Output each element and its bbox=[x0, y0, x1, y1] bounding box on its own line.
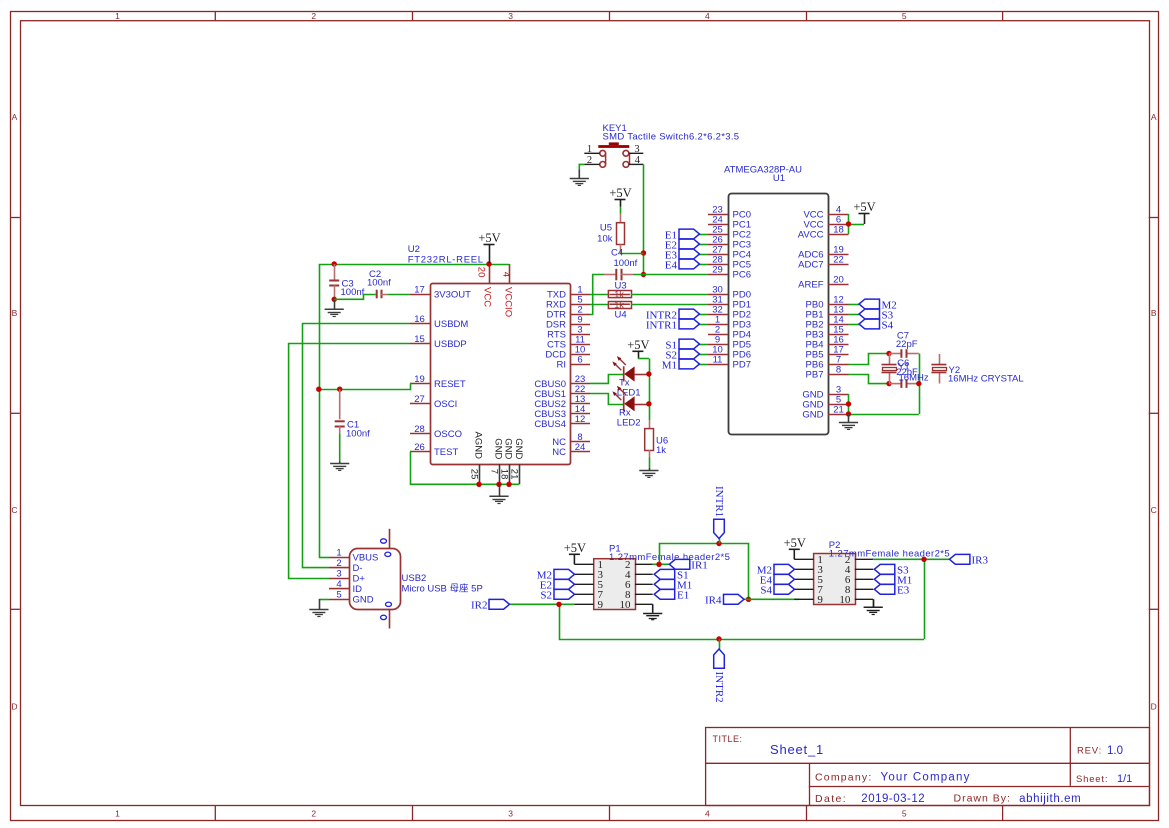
U1 pin 28 PC5 bbox=[708, 254, 751, 270]
U1 pin 24 PC1 bbox=[708, 214, 751, 230]
title block bbox=[706, 727, 1150, 805]
svg-text:22pF: 22pF bbox=[896, 339, 918, 350]
svg-text:D-: D- bbox=[353, 563, 363, 574]
net flag S4 at P2 bbox=[760, 584, 794, 596]
svg-text:D: D bbox=[1151, 702, 1157, 712]
svg-text:TEST: TEST bbox=[434, 447, 458, 458]
net flag IR1 bbox=[669, 559, 708, 571]
junction U2 GND7 bbox=[496, 482, 501, 487]
svg-text:Your Company: Your Company bbox=[881, 772, 971, 784]
wire KEY1 pin4 down bbox=[643, 164, 645, 274]
svg-text:Y1: Y1 bbox=[898, 362, 910, 373]
ground under C3 bbox=[325, 299, 344, 316]
U1 pin 9 PD5 bbox=[708, 334, 751, 350]
U1 pin 32 PD2 bbox=[708, 304, 751, 320]
ground at U1 bbox=[839, 414, 858, 429]
wire IR4 to P2 pin9 bbox=[749, 598, 799, 600]
U2 pin 21 GND bottom bbox=[509, 438, 524, 484]
wire CBUS1 to LED2 bbox=[590, 394, 623, 405]
U2 pin 27 OSCI bbox=[410, 394, 457, 410]
ground under U6 bbox=[639, 468, 658, 477]
net flag M2 at U1 right bbox=[849, 299, 897, 311]
capacitor C3 100nf bbox=[329, 264, 364, 299]
P2 pin 4 bbox=[845, 564, 873, 576]
svg-text:PD7: PD7 bbox=[733, 360, 751, 371]
svg-text:Date:: Date: bbox=[815, 793, 847, 805]
U1 pin 21 GND bbox=[802, 404, 848, 420]
net flag M1 at P1 right bbox=[654, 579, 692, 591]
junction IR3 bbox=[921, 557, 926, 562]
net flag IR4 bbox=[705, 594, 749, 606]
wire U2 TEST to GND rail bbox=[410, 452, 519, 485]
net flag E4 at P2 bbox=[760, 574, 795, 586]
svg-text:S4: S4 bbox=[760, 585, 772, 597]
wire RXD to U4 bbox=[590, 304, 608, 306]
U2 pin 22 CBUS1 bbox=[534, 384, 590, 400]
node A junction bbox=[886, 351, 891, 356]
U1 pin 1 PD3 bbox=[708, 314, 751, 330]
net flag S3 at U1 right bbox=[849, 309, 894, 321]
svg-text:5: 5 bbox=[902, 11, 907, 21]
svg-text:9: 9 bbox=[598, 599, 604, 611]
power flag +5V at P2 bbox=[784, 536, 806, 559]
wire TXD to U3 bbox=[590, 294, 608, 296]
svg-text:100nf: 100nf bbox=[346, 429, 370, 440]
svg-text:16MHz: 16MHz bbox=[899, 372, 929, 383]
U2 pin 16 USBDM bbox=[410, 314, 468, 330]
wire P2 pin2 to IR3 bbox=[873, 559, 949, 639]
P1 pin 5 bbox=[574, 579, 603, 591]
U2 pin 2 DTR bbox=[546, 304, 590, 320]
svg-text:Micro USB 母座 5P: Micro USB 母座 5P bbox=[402, 583, 483, 595]
wire PB6 to crystal node A bbox=[849, 354, 890, 365]
svg-text:SMD Tactile Switch6.2*6.2*3.5: SMD Tactile Switch6.2*6.2*3.5 bbox=[603, 132, 740, 143]
svg-text:1: 1 bbox=[115, 808, 120, 818]
net flag S2 at U1 left bbox=[665, 349, 708, 361]
P2 pin 9 bbox=[794, 594, 823, 606]
svg-text:D+: D+ bbox=[353, 574, 366, 585]
net flag E2 at P1 bbox=[540, 579, 575, 591]
P2 pin 8 bbox=[845, 584, 873, 596]
USB2 mount pin bottom bbox=[381, 602, 392, 628]
svg-text:+5V: +5V bbox=[853, 200, 875, 214]
U1 pin 6 VCC bbox=[803, 214, 848, 230]
P1 pin 2 bbox=[625, 559, 653, 571]
svg-text:LED2: LED2 bbox=[617, 418, 641, 429]
U2 pin 15 USBDP bbox=[410, 334, 467, 350]
svg-text:C4: C4 bbox=[611, 248, 623, 259]
junction U1 VCC bbox=[846, 221, 851, 226]
wire CBUS0 to LED1 bbox=[590, 375, 623, 384]
svg-text:100nf: 100nf bbox=[367, 278, 391, 289]
svg-text:1/1: 1/1 bbox=[1117, 773, 1132, 785]
svg-text:24: 24 bbox=[575, 442, 586, 453]
op-amp U1 ATMEGA328P-AU body bbox=[724, 165, 828, 435]
svg-text:S4: S4 bbox=[882, 319, 894, 331]
svg-text:INTR2: INTR2 bbox=[713, 672, 725, 703]
U1 pin 31 PD1 bbox=[708, 294, 751, 310]
svg-text:4: 4 bbox=[336, 579, 341, 590]
U1 pin 22 ADC7 bbox=[798, 254, 848, 270]
svg-text:1: 1 bbox=[336, 548, 341, 559]
svg-text:9: 9 bbox=[817, 594, 823, 606]
svg-text:USBDM: USBDM bbox=[434, 319, 468, 330]
P1 pin 9 bbox=[574, 599, 603, 611]
USB2 mount pin top bbox=[381, 529, 391, 557]
U1 pin 10 PD6 bbox=[708, 344, 751, 360]
net flag E1 at P1 right bbox=[654, 589, 689, 601]
wire USB2 GND bbox=[319, 599, 329, 601]
svg-text:IR3: IR3 bbox=[972, 555, 989, 567]
wire C7 right to rail bbox=[889, 354, 920, 415]
wire DTR to C4 bbox=[590, 275, 604, 315]
ground at P2 pin10 bbox=[873, 599, 875, 606]
svg-text:4: 4 bbox=[705, 808, 710, 818]
svg-text:5: 5 bbox=[902, 808, 907, 818]
junction P1 pin9 bbox=[556, 602, 561, 607]
svg-text:GND: GND bbox=[493, 438, 504, 459]
net flag E2 bbox=[665, 239, 708, 251]
net flag IR2 bbox=[471, 599, 510, 611]
wire U4 to PD1 bbox=[631, 304, 708, 306]
svg-text:C: C bbox=[11, 505, 17, 515]
junction U1 GND pin5 bbox=[846, 401, 851, 406]
svg-text:M1: M1 bbox=[662, 359, 677, 371]
net flag INTR2 bbox=[713, 639, 725, 703]
U1 pin 23 PC0 bbox=[708, 204, 751, 220]
P2 pin 1 bbox=[794, 554, 823, 566]
wire U1 GND pins bbox=[849, 394, 919, 415]
P1 pin 6 bbox=[625, 579, 653, 591]
svg-text:A: A bbox=[1151, 112, 1157, 122]
connector P1 header body bbox=[594, 544, 731, 610]
svg-text:4: 4 bbox=[501, 272, 512, 277]
U1 pin 16 PB4 bbox=[806, 334, 849, 350]
svg-text:Sheet_1: Sheet_1 bbox=[770, 742, 824, 757]
svg-text:INTR1: INTR1 bbox=[713, 486, 725, 517]
P2 pin 6 bbox=[845, 574, 873, 586]
U2 pin 26 TEST bbox=[410, 442, 458, 458]
power flag +5V at LEDs bbox=[627, 338, 649, 358]
svg-text:20: 20 bbox=[833, 274, 844, 285]
connector USB2 Micro USB body bbox=[350, 549, 483, 610]
svg-text:USBDP: USBDP bbox=[434, 339, 467, 350]
wire IR2 to P1 pin9 and INTR2 net bbox=[510, 604, 925, 639]
U2 pin 14 CBUS3 bbox=[534, 404, 590, 420]
U2 pin 23 CBUS0 bbox=[534, 374, 590, 390]
junction +5V U2 bbox=[486, 261, 491, 266]
svg-text:AREF: AREF bbox=[798, 280, 824, 291]
net flag E1 bbox=[665, 229, 708, 241]
U2 pin 4 VCCIO top bbox=[501, 264, 514, 317]
svg-text:20: 20 bbox=[475, 267, 486, 278]
diode LED2 Rx bbox=[612, 386, 649, 429]
net flag M2 at P1 bbox=[537, 569, 575, 581]
wire U5 to KEY1 net bbox=[620, 253, 644, 255]
svg-text:1.0: 1.0 bbox=[1107, 745, 1123, 757]
op-amp U2 FT232RL-REEL body bbox=[408, 244, 571, 465]
net flag E3 bbox=[665, 249, 708, 261]
svg-text:1: 1 bbox=[587, 144, 592, 155]
U1 pin 7 PB6 bbox=[806, 354, 849, 370]
P1 pin 1 bbox=[574, 559, 603, 571]
svg-text:PC6: PC6 bbox=[733, 270, 751, 281]
wire C6 left and right bbox=[889, 383, 919, 385]
wire PB7 to crystal node B bbox=[849, 375, 890, 384]
junction RESET on +5V line bbox=[316, 387, 321, 392]
U2 pin 10 DCD bbox=[545, 344, 590, 360]
net flag E4 bbox=[665, 259, 708, 271]
svg-text:10: 10 bbox=[839, 594, 851, 606]
U1 pin 20 AREF bbox=[798, 274, 848, 290]
junction U2 GND18 bbox=[506, 482, 511, 487]
svg-text:U2: U2 bbox=[408, 244, 420, 255]
svg-text:Company:: Company: bbox=[815, 772, 872, 784]
svg-text:2: 2 bbox=[336, 558, 341, 569]
svg-text:ADC7: ADC7 bbox=[798, 260, 823, 271]
U2 pin 25 AGND bottom bbox=[468, 432, 483, 485]
junction LED1 anode bbox=[646, 371, 651, 376]
svg-text:18: 18 bbox=[833, 224, 844, 235]
net flag E3 at P2 right bbox=[874, 584, 909, 596]
svg-text:GND: GND bbox=[513, 438, 524, 459]
KEY1 pin 4 bbox=[629, 155, 644, 166]
capacitor C1 100nf bbox=[335, 389, 370, 461]
P2 pin 2 bbox=[845, 554, 873, 566]
svg-text:25: 25 bbox=[468, 469, 479, 480]
junction INTR2 bbox=[716, 636, 721, 641]
svg-text:OSCI: OSCI bbox=[434, 399, 457, 410]
U1 pin 4 VCC bbox=[803, 204, 848, 220]
svg-text:8: 8 bbox=[836, 364, 841, 375]
KEY1 pin 2 bbox=[584, 155, 600, 166]
ground at USB2 bbox=[309, 599, 328, 617]
svg-text:D: D bbox=[11, 702, 17, 712]
diode LED1 Tx bbox=[612, 356, 649, 398]
svg-text:PB7: PB7 bbox=[806, 370, 824, 381]
svg-text:CBUS4: CBUS4 bbox=[534, 419, 566, 430]
svg-text:VCCIO: VCCIO bbox=[502, 287, 513, 317]
svg-text:27: 27 bbox=[414, 394, 425, 405]
resistor U5 10k bbox=[597, 207, 624, 254]
svg-text:3: 3 bbox=[508, 11, 513, 21]
svg-text:+5V: +5V bbox=[609, 186, 631, 200]
svg-text:1k: 1k bbox=[656, 445, 666, 456]
net flag S2 at P1 bbox=[540, 589, 574, 601]
svg-text:+5V: +5V bbox=[478, 231, 500, 245]
U2 pin 28 OSCO bbox=[410, 424, 462, 440]
U2 pin 7 GND bottom bbox=[488, 438, 503, 484]
svg-text:1: 1 bbox=[115, 11, 120, 21]
resistor U4 1k bbox=[608, 300, 631, 321]
svg-text:GND: GND bbox=[802, 410, 823, 421]
svg-text:A: A bbox=[12, 112, 18, 122]
junction U1 GND pin21 bbox=[846, 411, 851, 416]
svg-text:S2: S2 bbox=[540, 590, 552, 602]
USB2 pin 1 VBUS bbox=[329, 548, 378, 564]
U1 pin 13 PB1 bbox=[806, 304, 849, 320]
U2 pin 12 CBUS4 bbox=[534, 414, 590, 430]
svg-text:IR4: IR4 bbox=[705, 595, 722, 607]
KEY1 pin 1 bbox=[584, 144, 600, 155]
net flag M1 at P2 right bbox=[874, 574, 912, 586]
P1 pin 10 bbox=[620, 599, 653, 611]
svg-text:2019-03-12: 2019-03-12 bbox=[861, 793, 925, 805]
svg-text:4: 4 bbox=[705, 11, 710, 21]
U1 pin 14 PB2 bbox=[806, 314, 849, 330]
net flag S4 at U1 right bbox=[849, 319, 894, 331]
svg-text:REV:: REV: bbox=[1077, 746, 1102, 757]
wire KEY1 pin2 to ground bbox=[579, 164, 584, 169]
wire U1 VCC pins to +5V bbox=[849, 214, 865, 234]
svg-text:15: 15 bbox=[414, 334, 425, 345]
svg-text:2: 2 bbox=[311, 11, 316, 21]
switch KEY1 SMD tactile bbox=[598, 123, 739, 167]
net flag INTR1 bbox=[713, 486, 725, 544]
USB2 pin 5 GND bbox=[329, 589, 374, 605]
svg-text:10: 10 bbox=[620, 599, 632, 611]
U2 pin 11 CTS bbox=[547, 334, 590, 350]
net flag S3 at P2 right bbox=[874, 564, 909, 576]
wire +5V rail above U2 bbox=[319, 264, 510, 557]
P2 pin 10 bbox=[839, 594, 873, 606]
U2 pin 19 RESET bbox=[410, 374, 466, 390]
U1 pin 8 PB7 bbox=[806, 364, 849, 380]
svg-text:AVCC: AVCC bbox=[798, 230, 824, 241]
capacitor C7 22pF bbox=[896, 331, 918, 358]
U1 pin 15 PB3 bbox=[806, 324, 849, 340]
svg-text:Drawn By:: Drawn By: bbox=[954, 793, 1011, 805]
svg-text:ID: ID bbox=[353, 584, 363, 595]
svg-text:19: 19 bbox=[414, 374, 425, 385]
U1 pin 2 PD4 bbox=[708, 324, 751, 340]
svg-text:TITLE:: TITLE: bbox=[713, 734, 743, 744]
capacitor C6 22pF bbox=[896, 358, 918, 388]
U2 pin 3 RTS bbox=[547, 324, 590, 340]
junction KEY1 PC6 bbox=[641, 272, 646, 277]
U2 pin 20 VCC top bbox=[475, 264, 492, 307]
svg-text:29: 29 bbox=[712, 264, 723, 275]
USB2 pin 2 D- bbox=[329, 558, 363, 574]
svg-text:2: 2 bbox=[311, 808, 316, 818]
svg-text:+5V: +5V bbox=[784, 536, 806, 550]
svg-text:U1: U1 bbox=[773, 173, 785, 184]
net flag INTR1 at U1 bbox=[646, 319, 708, 331]
P1 pin 8 bbox=[625, 589, 653, 601]
svg-text:4: 4 bbox=[635, 155, 641, 166]
U1 pin 11 PD7 bbox=[708, 354, 751, 370]
svg-text:IR1: IR1 bbox=[691, 560, 708, 572]
wire P1 pin2 to IR1 and INTR1 bbox=[653, 544, 749, 600]
svg-text:U4: U4 bbox=[615, 310, 627, 321]
U1 pin 25 PC2 bbox=[708, 224, 751, 240]
P1 pin 4 bbox=[625, 569, 653, 581]
net flag IR3 bbox=[949, 554, 988, 566]
svg-text:16MHz CRYSTAL: 16MHz CRYSTAL bbox=[948, 373, 1024, 384]
svg-text:C: C bbox=[1151, 505, 1157, 515]
KEY1 pin 3 bbox=[629, 144, 644, 155]
U2 pin 13 CBUS2 bbox=[534, 394, 590, 410]
svg-text:VBUS: VBUS bbox=[353, 553, 379, 564]
U2 pin 1 TXD bbox=[547, 284, 590, 300]
U1 pin 12 PB0 bbox=[806, 294, 849, 310]
svg-text:OSCO: OSCO bbox=[434, 429, 462, 440]
net flag M2 at P2 bbox=[757, 564, 795, 576]
svg-text:GND: GND bbox=[503, 438, 514, 459]
svg-text:2: 2 bbox=[587, 155, 592, 166]
P2 pin 5 bbox=[794, 574, 823, 586]
svg-text:GND: GND bbox=[353, 595, 374, 606]
svg-text:U5: U5 bbox=[600, 223, 612, 234]
junction IR4 bbox=[746, 597, 751, 602]
U1 pin 17 PB5 bbox=[806, 344, 849, 360]
svg-text:5: 5 bbox=[336, 589, 341, 600]
U1 pin 26 PC3 bbox=[708, 234, 751, 250]
svg-text:16: 16 bbox=[414, 314, 425, 325]
svg-text:B: B bbox=[1151, 308, 1157, 318]
svg-text:AGND: AGND bbox=[473, 432, 484, 460]
svg-text:22: 22 bbox=[833, 254, 844, 265]
net flag S1 at P1 right bbox=[654, 569, 688, 581]
U1 pin 30 PD0 bbox=[708, 284, 751, 300]
svg-text:12: 12 bbox=[575, 414, 586, 425]
svg-text:3: 3 bbox=[336, 569, 341, 580]
net flag S1 at U1 left bbox=[665, 339, 708, 351]
svg-text:VCC: VCC bbox=[481, 287, 492, 307]
wire RESET net U2 bbox=[319, 384, 411, 390]
ground at U2 bottom bbox=[489, 484, 508, 503]
net flag INTR2 at U1 bbox=[646, 309, 708, 321]
svg-text:10k: 10k bbox=[597, 234, 613, 245]
wire U3 to PD0 bbox=[631, 294, 708, 296]
U1 pin 19 ADC6 bbox=[798, 244, 848, 260]
svg-text:11: 11 bbox=[713, 354, 723, 365]
crystal Y1 16MHz bbox=[882, 354, 929, 384]
wire VBUS vertical bbox=[319, 557, 329, 559]
U2 pin 5 RXD bbox=[546, 294, 590, 310]
net flag M1 at U1 left bbox=[662, 359, 708, 371]
junction P1 pin2 bbox=[656, 562, 661, 567]
wire C3 to C2 bbox=[334, 295, 375, 300]
U2 pin 18 GND bottom bbox=[498, 438, 513, 484]
P1 pin 3 bbox=[574, 569, 603, 581]
P1 pin 7 bbox=[574, 589, 603, 601]
U2 pin 24 NC bbox=[552, 442, 590, 458]
ground under C1 bbox=[330, 462, 349, 471]
svg-text:100nf: 100nf bbox=[341, 287, 365, 298]
svg-text:3V3OUT: 3V3OUT bbox=[434, 290, 471, 301]
USB2 pin 3 D+ bbox=[329, 569, 365, 585]
power flag +5V at P1 bbox=[564, 541, 586, 564]
svg-text:U3: U3 bbox=[615, 280, 627, 291]
ground at KEY1 bbox=[570, 170, 589, 186]
power flag +5V at U2 bbox=[478, 231, 500, 263]
svg-text:E3: E3 bbox=[897, 585, 910, 597]
svg-text:RI: RI bbox=[557, 360, 567, 371]
svg-text:RESET: RESET bbox=[434, 379, 466, 390]
svg-text:B: B bbox=[12, 308, 18, 318]
USB2 pin 4 ID bbox=[329, 579, 362, 595]
svg-text:3: 3 bbox=[508, 808, 513, 818]
U1 pin 18 AVCC bbox=[798, 224, 849, 240]
U2 pin 17 3V3OUT bbox=[410, 284, 471, 300]
svg-text:INTR1: INTR1 bbox=[646, 319, 677, 331]
U2 pin 8 NC bbox=[552, 432, 590, 448]
junction C6 rail bbox=[916, 381, 921, 386]
power flag +5V at U5 bbox=[609, 186, 631, 207]
crystal Y2 16MHz CRYSTAL bbox=[931, 354, 1023, 384]
junction INTR1 bbox=[716, 541, 721, 546]
